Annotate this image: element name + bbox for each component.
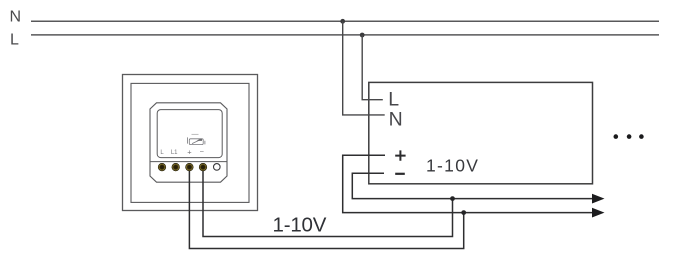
terminal screw plus [186,163,194,171]
module terminal block divider [150,161,227,163]
wire module plus to bus [189,167,463,249]
wire L mains line [31,34,659,36]
junction dot plus bus [461,210,466,215]
junction dot on N line [340,19,345,24]
svg-text:L: L [10,31,19,48]
junction dot minus bus [450,196,455,201]
junction dot on L line [360,33,365,38]
svg-text:L1: L1 [171,150,178,156]
svg-text:N: N [10,9,22,26]
driver pin minus [395,173,405,175]
wire driver plus to output [343,155,592,212]
svg-text:+: + [187,147,192,156]
arrow plus output [592,208,605,218]
arrow minus output [592,194,605,204]
svg-text:L: L [388,89,399,111]
svg-text:1-10V: 1-10V [273,213,327,236]
terminal screw L1 [172,163,180,171]
svg-text:−: − [200,147,205,156]
wire L line to driver L [362,35,383,100]
svg-text:1-10V: 1-10V [426,156,479,176]
svg-text:N: N [389,108,403,130]
indicator button [214,164,221,171]
module front panel [157,110,222,158]
wire N line to driver N [343,21,385,115]
terminal screw L [158,163,166,171]
wire N mains line [31,20,659,22]
ellipsis more drivers [614,134,619,139]
module dimmer icon [188,134,205,144]
terminal screw minus [199,163,207,171]
driver U2 box [369,82,593,183]
driver pin plus [395,150,405,160]
module wall box outer [123,75,258,211]
module wall box inner [131,83,249,202]
wire module minus to bus [203,167,453,237]
module U1 body [150,103,227,182]
wire driver minus to output [352,173,592,198]
